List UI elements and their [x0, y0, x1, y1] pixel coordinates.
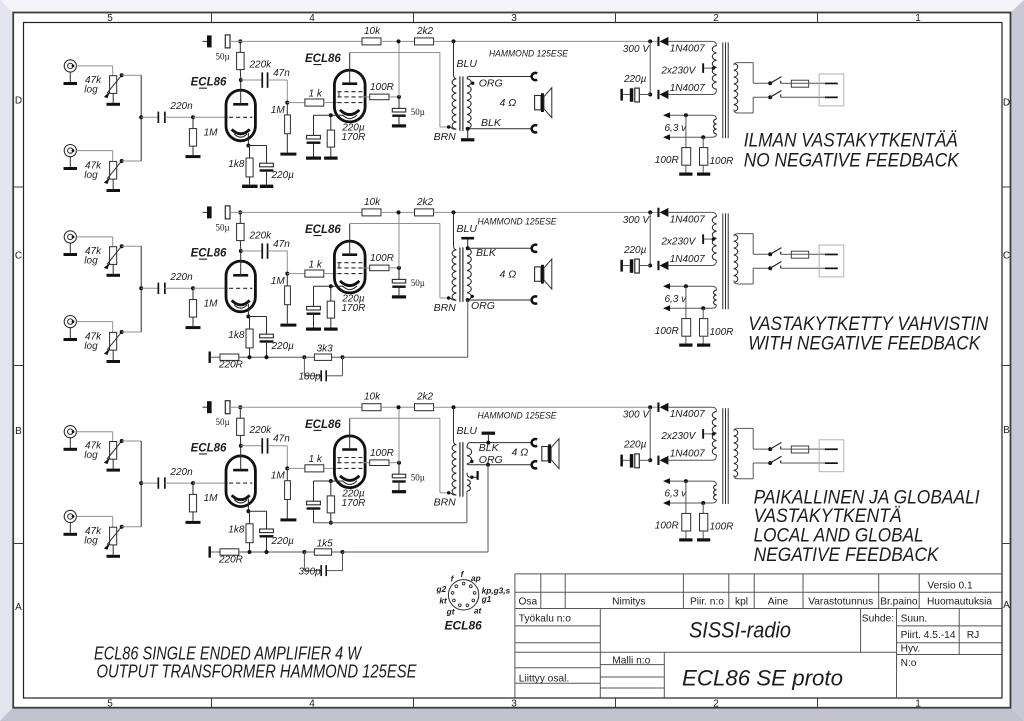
pentode cathode CH3	[340, 476, 359, 481]
svg-text:2x230V: 2x230V	[660, 236, 696, 247]
speaker 4 ohm CH2	[535, 267, 541, 281]
capacitor 220n CH3	[158, 477, 160, 488]
resistor 1M grid2 CH3	[286, 468, 288, 480]
wire 47n down CH1	[286, 80, 288, 103]
svg-text:ECL86: ECL86	[305, 419, 341, 431]
svg-text:log: log	[84, 255, 98, 266]
svg-text:3k3: 3k3	[317, 344, 334, 355]
capacitor 47n CH2	[241, 250, 262, 252]
wire bus to coupling cap CH2	[141, 287, 158, 289]
svg-text:Piir. n:o: Piir. n:o	[690, 597, 724, 608]
pentode plate CH2	[342, 253, 357, 256]
svg-text:1M: 1M	[271, 471, 286, 482]
fuse F2	[781, 253, 792, 255]
triode cathode lead CH1	[247, 133, 249, 146]
PSU transformer core CH1	[722, 42, 724, 138]
svg-text:3: 3	[511, 13, 517, 24]
wire diode to HV winding CH3	[668, 407, 716, 411]
svg-text:100R: 100R	[710, 156, 734, 167]
B+ rail CH3	[230, 406, 362, 408]
svg-text:ECL86: ECL86	[305, 53, 341, 65]
wire cap to grid node CH3	[165, 482, 194, 484]
resistor 220k CH1	[238, 39, 242, 43]
resistor 100R heater-a CH3	[684, 479, 688, 483]
zone ticks left	[14, 186, 23, 188]
transformer T2 secondary bottom lead ORG	[466, 298, 470, 302]
mains plug CH2	[819, 245, 844, 277]
svg-text:1k8: 1k8	[228, 159, 245, 170]
resistor 10k CH3	[362, 404, 381, 411]
wire jack CH3b to pot	[76, 515, 112, 517]
triode cathode lead CH2	[247, 304, 249, 317]
svg-text:SISSI-radio: SISSI-radio	[689, 617, 791, 642]
zone ticks right	[1002, 186, 1010, 188]
wire cap to grid node CH1	[165, 116, 194, 118]
svg-text:1 k: 1 k	[309, 454, 323, 465]
svg-text:50µ: 50µ	[411, 107, 425, 117]
svg-text:RJ: RJ	[967, 630, 979, 641]
svg-text:4: 4	[309, 13, 315, 24]
node grid2 CH3	[285, 466, 289, 470]
PSU transformer core CH2	[722, 213, 724, 309]
input jack J2a	[64, 231, 76, 243]
wire pentode cathode RC to local winding CH3	[313, 510, 315, 523]
switch S2b	[768, 266, 772, 270]
resistor 170R CH1	[330, 115, 332, 130]
feedback bus to transformer CH3	[343, 551, 489, 553]
svg-text:ECL86: ECL86	[191, 77, 227, 89]
node plate1 CH2	[239, 249, 243, 253]
svg-text:D: D	[15, 96, 22, 107]
transformer T1 BRN lead	[450, 127, 456, 129]
svg-text:1M: 1M	[271, 105, 286, 116]
node rail-BLU CH3	[452, 405, 456, 409]
svg-text:BRN: BRN	[434, 131, 457, 143]
svg-text:N:o: N:o	[901, 658, 917, 669]
svg-text:100R: 100R	[370, 448, 394, 459]
node grid2 CH1	[285, 101, 289, 105]
resistor 1k8 CH1	[249, 146, 251, 159]
svg-text:BLK: BLK	[481, 117, 502, 129]
potentiometer P2a 47k log	[110, 247, 117, 265]
node rail-screen CH3	[397, 405, 401, 409]
svg-text:Suhde:: Suhde:	[862, 613, 894, 624]
mains plug CH1	[819, 74, 844, 106]
zone ticks top	[211, 13, 213, 22]
wire jack CH2b to pot	[76, 321, 112, 323]
diode D3a 1N4007	[657, 403, 659, 412]
input bus wire CH3	[140, 441, 142, 527]
svg-text:220n: 220n	[169, 272, 193, 283]
feedback bus to transformer CH2	[343, 356, 468, 358]
triode V3a ECL86	[226, 456, 255, 507]
transformer T3 primary winding	[452, 445, 456, 495]
B+ rail CH2	[230, 211, 362, 213]
svg-text:300 V: 300 V	[623, 44, 650, 55]
triode cathode CH1	[232, 129, 250, 134]
ground 220u pentode CH2	[313, 315, 315, 328]
svg-text:HAMMOND 125ESE: HAMMOND 125ESE	[478, 411, 558, 421]
svg-text:ECL86: ECL86	[191, 443, 227, 455]
svg-text:4 Ω: 4 Ω	[500, 97, 517, 109]
capacitor 220u PSU CH2	[623, 265, 630, 267]
speaker connector bottom CH1	[532, 125, 537, 132]
svg-text:C: C	[15, 251, 22, 262]
wire pot CH3b wiper to bus	[120, 525, 124, 529]
capacitor 50u rail CH3	[203, 406, 208, 408]
svg-text:4: 4	[309, 699, 315, 710]
svg-text:220k: 220k	[249, 230, 273, 241]
svg-text:gt: gt	[446, 607, 456, 617]
fuse F1	[781, 82, 792, 84]
svg-text:NEGATIVE FEEDBACK: NEGATIVE FEEDBACK	[754, 545, 940, 566]
svg-text:220µ: 220µ	[623, 74, 647, 85]
svg-text:1N4007: 1N4007	[670, 43, 705, 54]
pentode grids CH2	[337, 262, 362, 264]
node fb-left CH2	[302, 355, 306, 359]
triode plate CH2	[233, 274, 248, 277]
svg-text:47n: 47n	[273, 434, 290, 445]
svg-text:1k5: 1k5	[317, 538, 334, 549]
resistor 100R heater-a CH1	[684, 113, 688, 117]
ground 170R CH2	[330, 318, 332, 327]
capacitor 47n CH1	[241, 79, 262, 81]
wire rail to PSU node CH2	[648, 210, 652, 214]
svg-text:ECL86: ECL86	[445, 619, 483, 633]
resistor 10k CH1	[362, 38, 381, 45]
svg-text:Hyv.: Hyv.	[901, 644, 921, 655]
feedback bus wire CH2	[239, 356, 305, 358]
triode cathode CH2	[232, 300, 250, 305]
svg-text:170R: 170R	[342, 498, 366, 509]
triode grid CH2	[229, 287, 252, 289]
wire screen riser CH3	[398, 407, 400, 463]
wire 47n down CH2	[286, 251, 288, 274]
svg-text:LOCAL AND GLOBAL: LOCAL AND GLOBAL	[754, 526, 924, 547]
wire pot CH2a wiper to bus	[120, 244, 124, 248]
svg-text:2k2: 2k2	[416, 197, 434, 208]
resistor 100R heater-a CH2	[684, 284, 688, 288]
wire ORG feedback riser CH3	[487, 465, 489, 552]
svg-text:ORG: ORG	[479, 454, 503, 466]
pentode cathode wire CH3	[314, 480, 344, 482]
svg-text:kt: kt	[439, 595, 448, 605]
capacitor 220u PSU CH1	[623, 94, 630, 96]
svg-text:220µ: 220µ	[271, 170, 295, 181]
resistor 100R heater-b CH3	[701, 501, 705, 505]
svg-text:HAMMOND 125ESE: HAMMOND 125ESE	[489, 49, 569, 59]
node fb-left CH3	[302, 550, 306, 554]
svg-text:BLU: BLU	[457, 425, 478, 437]
transformer T2 BLU lead	[454, 212, 457, 249]
resistor 10k CH2	[362, 209, 381, 216]
feedback bus wire CH3	[239, 551, 305, 553]
node screen CH1	[397, 95, 401, 99]
node cathode2 CH3	[329, 479, 333, 483]
svg-text:2x230V: 2x230V	[660, 65, 696, 76]
svg-text:ILMAN VASTAKYTKENTÄÄ: ILMAN VASTAKYTKENTÄÄ	[744, 131, 958, 152]
pentode cathode CH2	[340, 281, 359, 286]
svg-text:5: 5	[107, 13, 113, 24]
svg-text:Nimitys: Nimitys	[612, 597, 645, 608]
resistor 220R CH3	[211, 551, 220, 553]
speaker 4 ohm CH1	[535, 96, 541, 110]
pentode V1b ECL86	[334, 70, 365, 122]
wire diode to HV winding CH1	[668, 41, 716, 45]
wire diode to HV winding CH2	[668, 212, 716, 216]
svg-text:50µ: 50µ	[216, 51, 230, 61]
node plate1 CH3	[239, 444, 243, 448]
wire cap to grid node CH2	[165, 287, 194, 289]
svg-text:3: 3	[511, 699, 517, 710]
node cathode1 CH3	[246, 509, 250, 513]
svg-text:OUTPUT TRANSFORMER HAMMOND 125: OUTPUT TRANSFORMER HAMMOND 125ESE	[97, 661, 418, 681]
wire pot CH1a wiper to bus	[120, 73, 124, 77]
node cathode2 CH1	[329, 113, 333, 117]
input bus wire CH2	[140, 246, 142, 332]
input bus wire CH1	[140, 75, 142, 161]
wire bus to coupling cap CH1	[141, 116, 158, 118]
svg-text:VASTAKYTKENTÄ: VASTAKYTKENTÄ	[754, 506, 902, 527]
svg-text:170R: 170R	[342, 303, 366, 314]
transformer T3 BLK lead	[467, 443, 532, 448]
svg-text:220k: 220k	[249, 59, 273, 70]
svg-text:390p: 390p	[299, 567, 322, 578]
svg-text:Malli n:o: Malli n:o	[612, 656, 650, 667]
resistor 2k2 CH1	[415, 38, 434, 45]
speaker connector top CH3	[532, 439, 537, 446]
svg-text:A: A	[1003, 600, 1010, 611]
potentiometer P2b 47k log	[110, 332, 117, 350]
svg-text:BLK: BLK	[476, 247, 497, 259]
svg-text:BRN: BRN	[434, 497, 457, 509]
triode grid CH3	[229, 482, 252, 484]
svg-text:Suun.: Suun.	[901, 613, 928, 624]
ground 170R CH1	[330, 147, 332, 156]
svg-text:1 k: 1 k	[309, 88, 323, 99]
triode V2a ECL86	[226, 261, 255, 312]
pentode plate wire CH2	[350, 223, 440, 225]
svg-text:log: log	[84, 536, 98, 547]
capacitor 50u rail CH2	[203, 211, 208, 213]
pentode cathode wire CH1	[314, 114, 344, 116]
HV winding 2x230V CH2	[712, 217, 716, 261]
transformer T3 core	[459, 442, 461, 497]
capacitor 220u cathode CH3	[248, 510, 266, 512]
ground secondary CH2	[461, 237, 474, 240]
capacitor 50u screen CH3	[398, 463, 400, 475]
wire jack CH1a to pot	[76, 65, 112, 67]
filament winding 6.3V CH3	[714, 485, 717, 500]
transformer T1 BLU lead	[454, 41, 457, 78]
input jack J1a	[64, 60, 76, 72]
svg-text:ECL86 SE proto: ECL86 SE proto	[682, 666, 843, 691]
node PSU cap CH1	[648, 93, 652, 97]
node rail-screen CH2	[397, 210, 401, 214]
resistor 1M grid2 CH2	[286, 274, 288, 286]
svg-text:2k2: 2k2	[416, 26, 434, 37]
svg-text:50µ: 50µ	[411, 473, 425, 483]
wire 220u to feedback bus CH3	[266, 538, 268, 552]
svg-text:log: log	[84, 341, 98, 352]
ground secondary CH3	[482, 432, 496, 435]
svg-text:1N4007: 1N4007	[670, 214, 705, 225]
svg-text:B: B	[1003, 425, 1010, 436]
mains primary winding CH3	[734, 429, 738, 477]
svg-text:Työkalu n:o: Työkalu n:o	[519, 614, 571, 625]
capacitor 220n CH1	[158, 112, 160, 123]
switch S1b	[768, 95, 772, 99]
speaker connector top CH1	[532, 73, 537, 80]
resistor 1M grid leak CH3	[192, 483, 194, 494]
ground 220u cathode CH1	[266, 172, 268, 185]
transformer T1 secondary winding	[467, 79, 471, 129]
pentode plate wire CH1	[350, 52, 440, 54]
svg-text:47n: 47n	[273, 68, 290, 79]
wire bus to coupling cap CH3	[141, 482, 158, 484]
node rail-screen CH1	[397, 39, 401, 43]
svg-text:BLU: BLU	[457, 223, 478, 235]
resistor 1k CH1	[287, 102, 305, 104]
fuse F3	[781, 448, 792, 450]
svg-text:180p: 180p	[299, 372, 322, 383]
svg-text:6,3 v: 6,3 v	[665, 123, 688, 134]
triode grid CH1	[229, 116, 252, 118]
resistor 100R screen CH2	[363, 267, 370, 269]
svg-text:300 V: 300 V	[623, 410, 650, 421]
transformer T3 BLU lead	[454, 407, 457, 444]
svg-text:100R: 100R	[370, 82, 394, 93]
svg-text:ap: ap	[471, 573, 481, 583]
node fb-right CH3	[341, 550, 345, 554]
resistor 220R CH2	[211, 356, 220, 358]
triode cathode CH3	[232, 495, 250, 500]
resistor 2k2 CH3	[415, 404, 434, 411]
resistor 1k8 CH2	[249, 317, 251, 330]
transformer T2 secondary top lead BLK	[466, 246, 470, 250]
svg-text:1: 1	[915, 699, 921, 710]
svg-text:2x230V: 2x230V	[660, 431, 696, 442]
svg-text:ECL86: ECL86	[191, 248, 227, 260]
capacitor 50u screen CH2	[398, 268, 400, 280]
svg-text:220µ: 220µ	[271, 341, 295, 352]
wire jack CH3a to pot	[76, 431, 112, 433]
svg-text:220µ: 220µ	[623, 440, 647, 451]
svg-text:50µ: 50µ	[216, 417, 230, 427]
transformer T3 BRN lead	[450, 493, 456, 495]
svg-text:Huomautuksia: Huomautuksia	[927, 597, 992, 608]
svg-text:1: 1	[915, 13, 921, 24]
wire pot CH1b wiper to bus	[120, 159, 124, 163]
diode D2b 1N4007	[668, 260, 716, 265]
resistor 1k CH2	[287, 273, 305, 275]
transformer T1 secondary top lead ORG	[467, 77, 532, 79]
svg-text:Piirt. 4.5.-14: Piirt. 4.5.-14	[901, 630, 956, 641]
resistor 1M grid leak CH2	[192, 288, 194, 299]
svg-text:4 Ω: 4 Ω	[500, 269, 517, 281]
svg-text:4 Ω: 4 Ω	[512, 447, 529, 459]
transformer T2 primary winding	[452, 250, 456, 300]
wire jack CH1b to pot	[76, 150, 112, 152]
node cathode1 CH1	[246, 144, 250, 148]
svg-text:220k: 220k	[249, 425, 273, 436]
svg-text:100R: 100R	[655, 521, 679, 532]
svg-text:log: log	[84, 450, 98, 461]
svg-text:VASTAKYTKETTY VAHVISTIN: VASTAKYTKETTY VAHVISTIN	[748, 314, 988, 335]
input jack J1b	[64, 145, 76, 157]
svg-text:C: C	[1003, 251, 1010, 262]
ground 220u pentode CH1	[313, 144, 315, 157]
node grid1 CH3	[191, 481, 195, 485]
node PSU cap CH2	[648, 264, 652, 268]
pentode cathode CH1	[340, 110, 359, 115]
svg-text:50µ: 50µ	[411, 278, 425, 288]
mains primary winding CH2	[734, 234, 738, 282]
mains primary winding CH1	[734, 63, 738, 111]
diode D1b 1N4007	[668, 89, 716, 94]
title block outline	[515, 574, 1002, 698]
wire 47n down CH3	[286, 446, 288, 469]
svg-text:1M: 1M	[271, 276, 286, 287]
capacitor 220u PSU CH3	[623, 459, 630, 461]
mains plug CH3	[819, 440, 844, 472]
transformer T3 secondary winding upper	[467, 448, 472, 464]
wire pot CH2b wiper to bus	[120, 330, 124, 334]
svg-text:BLU: BLU	[457, 58, 478, 70]
HV winding 2x230V CH1	[712, 46, 716, 90]
switch S2a	[768, 252, 772, 256]
transformer T1 core	[459, 76, 461, 130]
transformer T2 secondary winding	[467, 248, 471, 300]
svg-text:10k: 10k	[364, 197, 381, 208]
pentode cathode wire CH2	[314, 285, 344, 287]
triode plate CH1	[233, 103, 248, 106]
filament winding 6.3V CH1	[714, 119, 717, 134]
node rail-BLU CH1	[452, 39, 456, 43]
pentode V2b ECL86	[334, 241, 365, 293]
tube socket ECL86 pinout	[448, 580, 478, 610]
svg-text:220R: 220R	[218, 555, 243, 566]
center tap CH1	[704, 67, 713, 69]
svg-text:1N4007: 1N4007	[670, 449, 705, 460]
HV winding 2x230V CH3	[712, 411, 716, 455]
node grid1 CH2	[191, 286, 195, 290]
node rail-BLU CH2	[452, 210, 456, 214]
switch S1a	[768, 81, 772, 85]
node plate1 CH1	[239, 78, 243, 82]
wire 1k8 to feedback bus CH2	[249, 348, 251, 357]
PSU transformer core CH3	[722, 408, 724, 504]
svg-text:1N4007: 1N4007	[670, 83, 705, 94]
wire rail to PSU node CH1	[648, 39, 652, 43]
svg-text:220R: 220R	[218, 360, 243, 371]
wire screen riser CH1	[398, 41, 400, 97]
ground secondary CH1	[467, 129, 469, 138]
svg-text:D: D	[1003, 98, 1010, 109]
potentiometer P1b 47k log	[110, 161, 117, 179]
svg-text:300 V: 300 V	[623, 215, 650, 226]
pentode grids CH3	[337, 457, 362, 459]
svg-text:50µ: 50µ	[216, 222, 230, 232]
wire rail to PSU node CH3	[648, 405, 652, 409]
switch S3b	[768, 461, 772, 465]
capacitor 220u pentode cathode CH2	[313, 286, 315, 306]
input jack J2b	[64, 316, 76, 328]
svg-text:2: 2	[713, 13, 719, 24]
diode D2a 1N4007	[657, 208, 659, 217]
zone ticks bottom	[211, 698, 213, 708]
pentode V3b ECL86	[334, 436, 365, 488]
